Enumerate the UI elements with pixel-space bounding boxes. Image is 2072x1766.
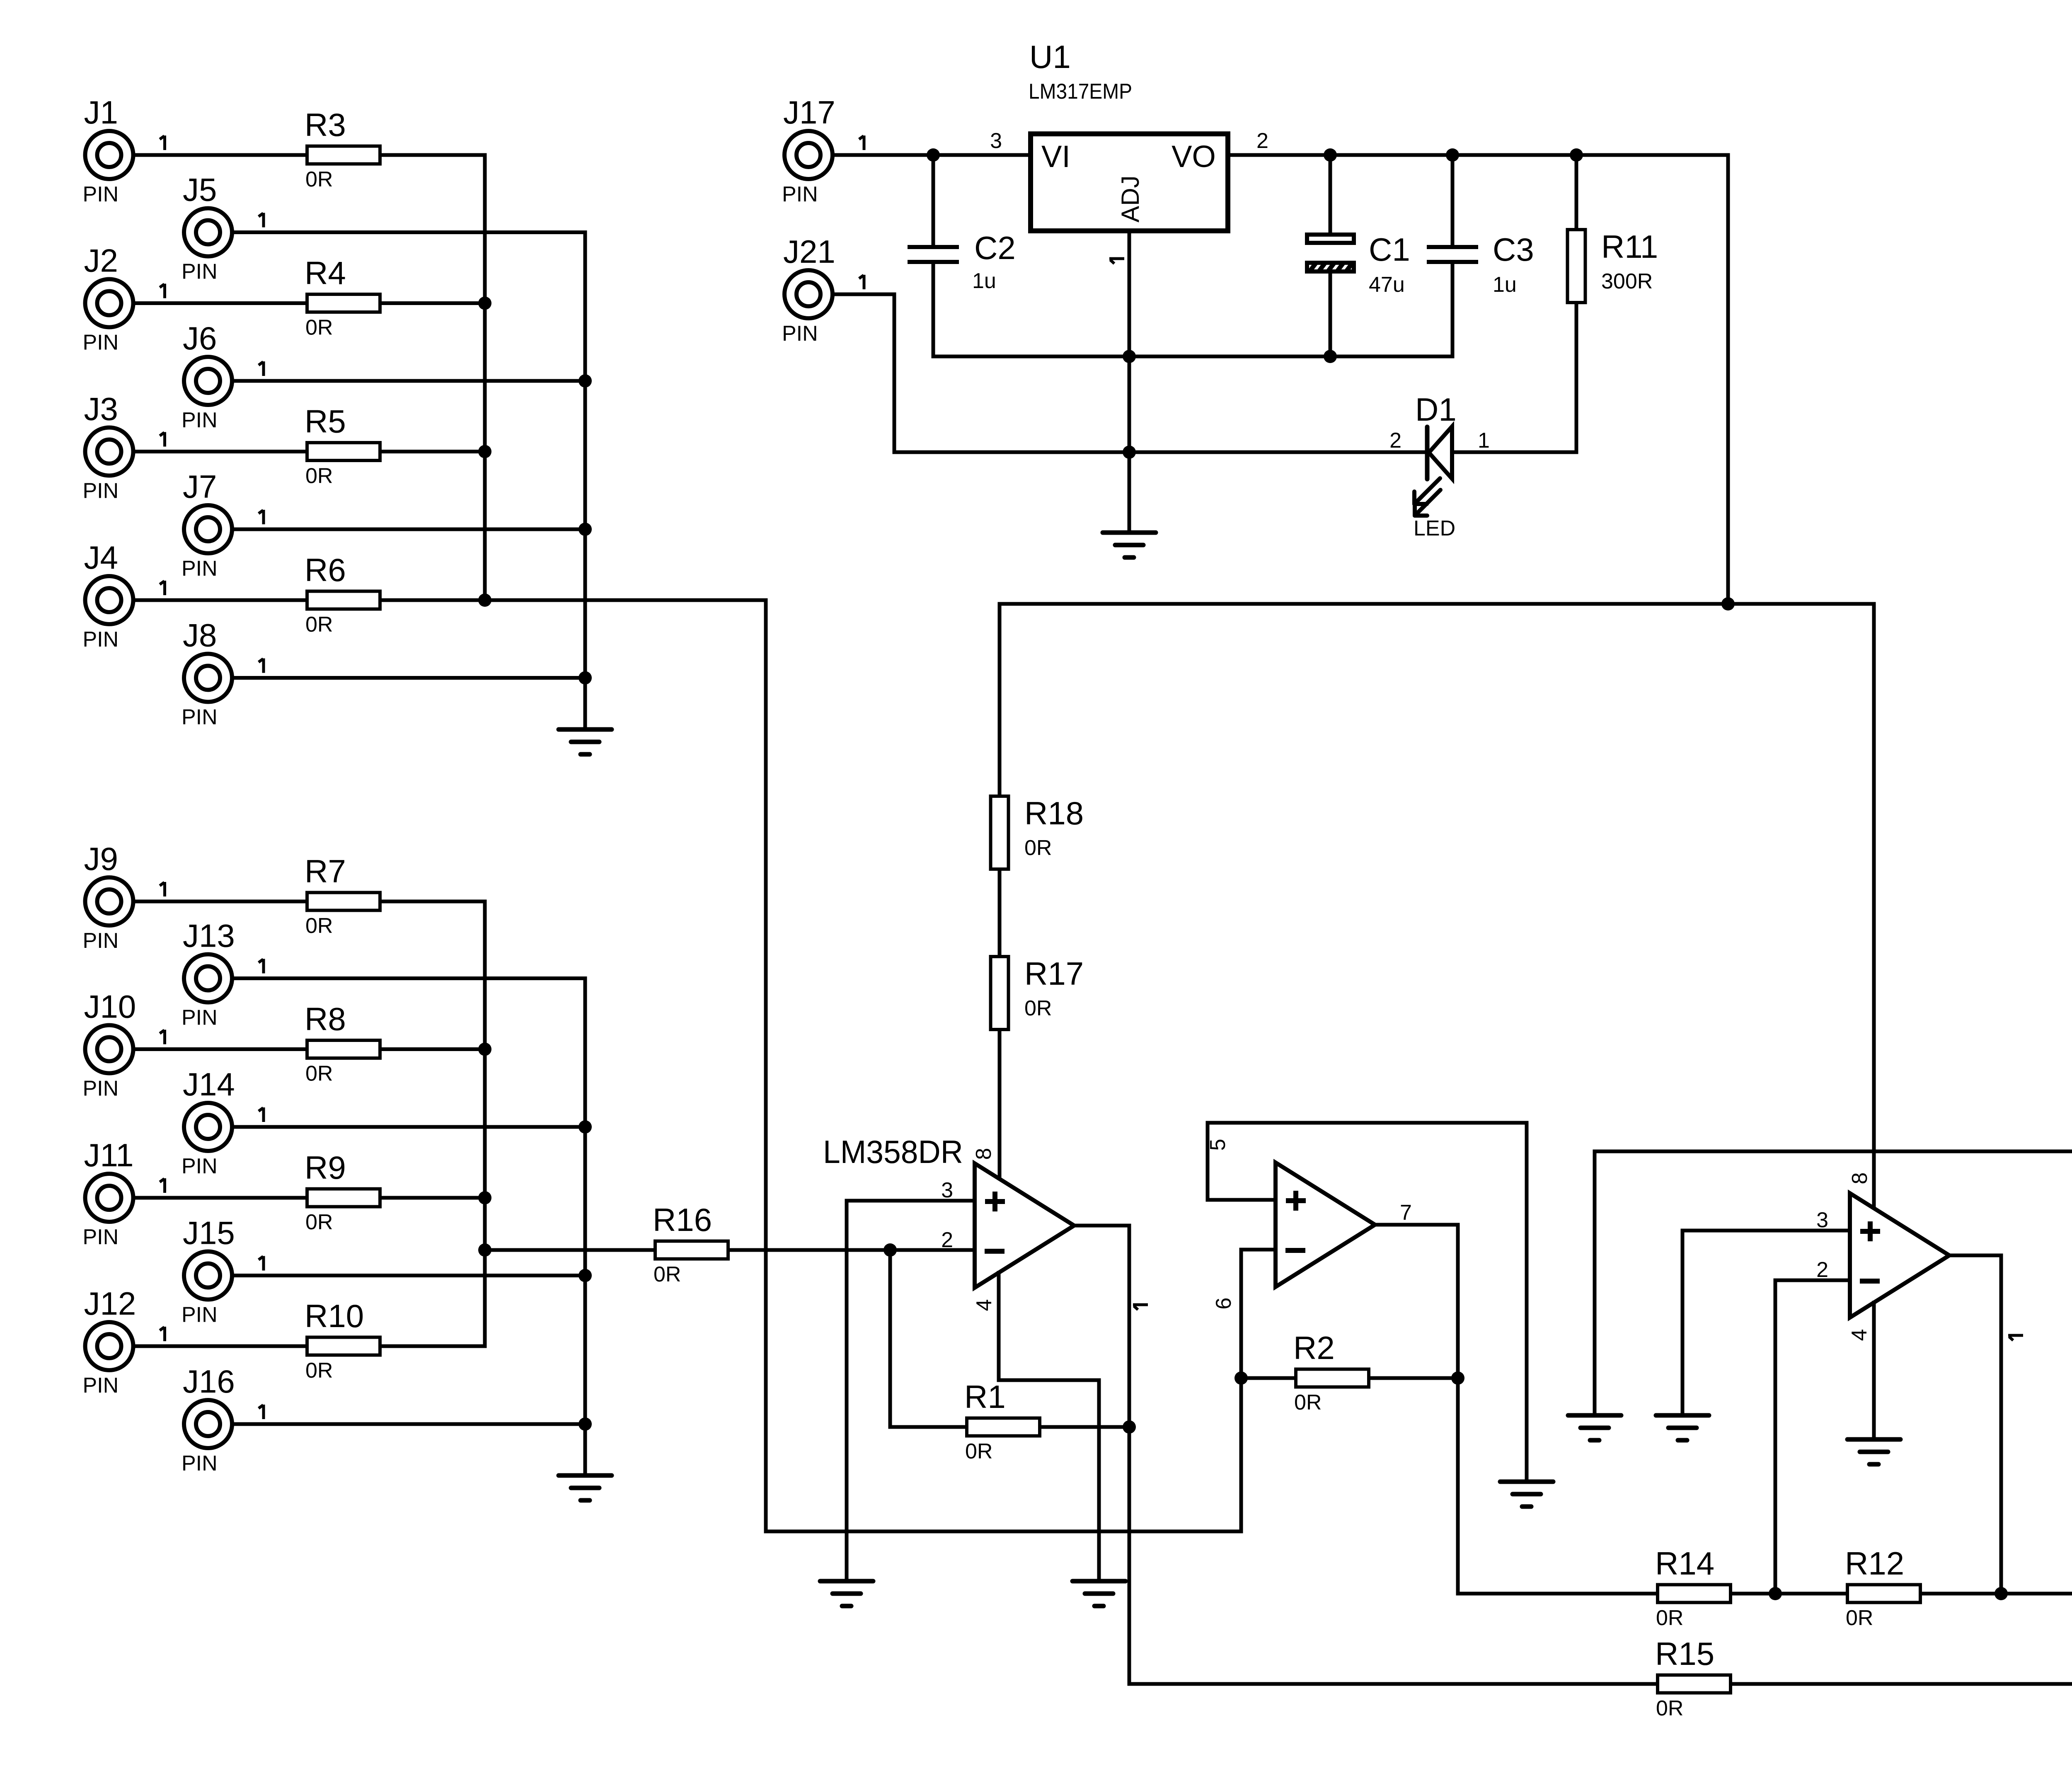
svg-text:J2: J2 xyxy=(84,242,118,279)
svg-text:PIN: PIN xyxy=(83,1374,119,1398)
svg-text:2: 2 xyxy=(1389,429,1402,453)
resistor R5 0R xyxy=(305,403,380,488)
pin number 2 U3A xyxy=(1816,1258,1828,1282)
op-amp U2B LM358DR second half xyxy=(1276,1163,1375,1287)
svg-text:0R: 0R xyxy=(1024,996,1052,1020)
connector J11 xyxy=(83,1137,165,1249)
svg-text:J9: J9 xyxy=(84,841,118,877)
regulator U1 LM317EMP xyxy=(1029,39,1228,231)
wire R14 right xyxy=(1733,1592,1846,1596)
wire J5 to ground bus xyxy=(234,230,585,234)
svg-text:1u: 1u xyxy=(972,269,996,293)
svg-text:J5: J5 xyxy=(183,172,217,208)
svg-text:0R: 0R xyxy=(305,1359,333,1383)
svg-text:0R: 0R xyxy=(965,1439,992,1463)
svg-text:0R: 0R xyxy=(1024,836,1052,860)
wire R3 right xyxy=(382,153,485,157)
junction J14 bus xyxy=(579,1120,592,1134)
svg-text:PIN: PIN xyxy=(182,1451,218,1475)
junction pin2 feedback tap xyxy=(884,1243,897,1257)
svg-text:J4: J4 xyxy=(84,539,118,576)
svg-text:0R: 0R xyxy=(1656,1606,1683,1630)
svg-text:PIN: PIN xyxy=(182,1303,218,1327)
svg-text:0R: 0R xyxy=(305,613,333,637)
junction R2 left xyxy=(1234,1371,1248,1385)
ground U3A pin3 xyxy=(1656,1415,1709,1440)
wire R11 bottom lead xyxy=(1575,305,1578,452)
svg-text:J14: J14 xyxy=(183,1066,235,1102)
connector J6 xyxy=(182,320,264,432)
pin number 4 U2A xyxy=(972,1299,996,1311)
wire bus R7-R10 xyxy=(483,901,487,1346)
svg-text:5: 5 xyxy=(1206,1139,1230,1151)
svg-text:6: 6 xyxy=(1212,1298,1236,1310)
junction R9 bus xyxy=(478,1191,491,1204)
junction R4 bus xyxy=(478,297,491,310)
resistor R8 0R xyxy=(305,1001,380,1086)
svg-text:2: 2 xyxy=(1816,1258,1828,1282)
wire D1 cathode lead xyxy=(1129,451,1427,454)
svg-text:PIN: PIN xyxy=(83,1077,119,1101)
pin number 1 U1 ADJ xyxy=(1109,259,1124,264)
resistor R1 0R xyxy=(964,1378,1040,1463)
wire U3A pin2 xyxy=(1775,1279,1850,1282)
connector J17 xyxy=(782,94,864,206)
junction J6 bus xyxy=(579,374,592,388)
svg-text:PIN: PIN xyxy=(83,1225,119,1249)
wire R9 right xyxy=(382,1196,485,1200)
svg-text:8: 8 xyxy=(972,1148,996,1160)
junction R8 bus xyxy=(478,1043,491,1056)
wire R6 net down xyxy=(485,600,1241,1531)
svg-text:7: 7 xyxy=(1400,1201,1412,1225)
junction ADJ-D1 node xyxy=(1123,446,1136,459)
wire J13 to ground bus xyxy=(234,976,585,980)
svg-text:PIN: PIN xyxy=(182,1006,218,1030)
wire R7 right xyxy=(382,900,485,904)
svg-text:PIN: PIN xyxy=(83,479,119,503)
wire R11 top lead xyxy=(1575,155,1578,228)
wire R10 right xyxy=(382,1344,485,1348)
wire R18 to R17 xyxy=(998,871,1002,955)
connector J7 xyxy=(182,468,264,581)
pin number 7 U2B xyxy=(1400,1201,1412,1225)
connector J8 xyxy=(182,617,264,729)
svg-text:PIN: PIN xyxy=(182,260,218,284)
pin number 8 op-amp U2A xyxy=(972,1148,996,1160)
pin number 4 U3A xyxy=(1847,1329,1871,1341)
svg-text:PIN: PIN xyxy=(782,182,818,206)
connector J13 xyxy=(182,918,264,1030)
resistor R12 0R xyxy=(1845,1545,1920,1630)
wire R6 right xyxy=(382,598,485,602)
svg-text:J12: J12 xyxy=(84,1285,136,1322)
wire V+ rail top xyxy=(1000,602,1874,606)
wire J12 to resistor xyxy=(136,1344,305,1348)
junction R14-R12 node xyxy=(1769,1587,1782,1600)
op-amp U2A LM358DR xyxy=(823,1134,1074,1288)
svg-text:J11: J11 xyxy=(84,1137,134,1173)
pin number 1 U3A xyxy=(2008,1335,2023,1340)
connector J10 xyxy=(83,988,165,1101)
svg-text:2: 2 xyxy=(941,1228,953,1252)
svg-text:4: 4 xyxy=(1847,1329,1871,1341)
wire R12 right xyxy=(1923,1592,2072,1596)
ground U2B pin5 xyxy=(1500,1482,1553,1507)
connector J12 xyxy=(83,1285,165,1398)
svg-text:3: 3 xyxy=(941,1178,953,1202)
wire feedback to R1 xyxy=(890,1250,965,1427)
junction C1 top xyxy=(1324,148,1337,162)
connector J14 xyxy=(182,1066,264,1178)
resistor R2 0R xyxy=(1293,1330,1369,1415)
svg-text:R14: R14 xyxy=(1655,1545,1714,1582)
svg-text:PIN: PIN xyxy=(182,1154,218,1178)
connector J2 xyxy=(83,242,165,355)
junction J15 bus xyxy=(579,1269,592,1282)
svg-text:C1: C1 xyxy=(1369,231,1410,268)
wire J16 to ground bus xyxy=(234,1422,585,1426)
wire op-amp U2A pin3 xyxy=(847,1199,975,1203)
wire R16 to pin2 xyxy=(730,1248,975,1252)
wire R2 right xyxy=(1371,1376,1458,1380)
wire output line R15 xyxy=(1129,1682,1656,1686)
pin number 5 U2B xyxy=(1206,1139,1230,1151)
svg-text:47u: 47u xyxy=(1369,273,1405,297)
pin number 2 U2A xyxy=(941,1228,953,1252)
ground U1 ADJ xyxy=(1103,533,1156,557)
wire R4 right xyxy=(382,301,485,305)
junction R2 output xyxy=(1451,1371,1464,1385)
svg-text:J3: J3 xyxy=(84,391,118,427)
svg-text:J10: J10 xyxy=(84,988,136,1025)
svg-text:3: 3 xyxy=(1816,1208,1828,1232)
diode D1 LED xyxy=(1389,391,1490,540)
svg-text:PIN: PIN xyxy=(182,557,218,581)
svg-text:R5: R5 xyxy=(305,403,346,440)
pin number 8 U3A xyxy=(1848,1172,1872,1185)
wire J1 to resistor xyxy=(136,153,305,157)
wire J7 to ground bus xyxy=(234,528,585,531)
ground U2A pin4 xyxy=(1072,1581,1126,1606)
junction C3 top xyxy=(1446,148,1459,162)
connector J4 xyxy=(83,539,165,652)
svg-text:VI: VI xyxy=(1041,139,1070,174)
svg-text:0R: 0R xyxy=(654,1262,681,1286)
svg-text:C3: C3 xyxy=(1493,231,1534,268)
pin number 3 U3A xyxy=(1816,1208,1828,1232)
capacitor C2 1u xyxy=(908,230,1016,293)
svg-text:J17: J17 xyxy=(783,94,835,131)
resistor R10 0R xyxy=(305,1298,380,1383)
svg-text:J13: J13 xyxy=(183,918,235,954)
svg-text:PIN: PIN xyxy=(182,408,218,432)
svg-text:PIN: PIN xyxy=(83,182,119,206)
svg-text:0R: 0R xyxy=(1656,1696,1683,1720)
wire J8 to ground bus xyxy=(234,676,585,680)
ground J5-J8 xyxy=(559,729,612,754)
junction C2 top xyxy=(927,148,940,162)
svg-text:J6: J6 xyxy=(183,320,217,356)
connector J9 xyxy=(83,841,165,953)
wire J17 to U1 VI xyxy=(835,153,1028,157)
wire V+ to R18 xyxy=(998,604,1002,795)
wire J4 to resistor xyxy=(136,598,305,602)
svg-text:R11: R11 xyxy=(1601,228,1658,265)
wire U2A pin4 to ground xyxy=(999,1273,1099,1581)
resistor R9 0R xyxy=(305,1149,380,1234)
svg-text:300R: 300R xyxy=(1601,269,1653,293)
wire C1 top lead xyxy=(1329,155,1332,233)
junction J8 bus xyxy=(579,671,592,685)
wire J10 to resistor xyxy=(136,1047,305,1051)
wire R1 right xyxy=(1041,1425,1129,1429)
wire R17 to opamp pin8 xyxy=(998,1032,1002,1178)
svg-text:J21: J21 xyxy=(783,233,835,270)
svg-text:VO: VO xyxy=(1172,139,1216,174)
svg-text:J16: J16 xyxy=(183,1363,235,1400)
wire U2B pin6 xyxy=(1241,1250,1276,1531)
resistor R7 0R xyxy=(305,853,380,938)
wire J14 to ground bus xyxy=(234,1125,585,1129)
capacitor C3 1u xyxy=(1427,231,1534,297)
svg-text:R17: R17 xyxy=(1024,955,1084,992)
wire U3B pin5 xyxy=(1595,1151,2072,1414)
svg-text:ADJ: ADJ xyxy=(1116,175,1144,222)
wire J3 to resistor xyxy=(136,450,305,453)
svg-text:R1: R1 xyxy=(964,1378,1006,1415)
pin number 3 U2A xyxy=(941,1178,953,1202)
svg-text:LED: LED xyxy=(1414,516,1455,540)
wire R15 right xyxy=(1733,1682,2072,1686)
wire R2 left xyxy=(1241,1376,1294,1380)
svg-text:J8: J8 xyxy=(183,617,217,654)
pin number 2 U1 VO xyxy=(1256,129,1268,153)
svg-text:PIN: PIN xyxy=(83,627,119,652)
resistor R6 0R xyxy=(305,552,380,637)
wire pin3 to ground U3A xyxy=(1681,1231,1685,1414)
svg-text:1: 1 xyxy=(1478,429,1490,453)
wire U1 VO to rail xyxy=(1230,153,1728,157)
wire U3A pin2 feedback xyxy=(1774,1280,1777,1594)
wire J6 to ground bus xyxy=(234,379,585,383)
wire pin3 to ground xyxy=(845,1201,849,1581)
junction J16 bus xyxy=(579,1417,592,1431)
svg-text:D1: D1 xyxy=(1415,391,1457,428)
pin number 6 U2B xyxy=(1212,1298,1236,1310)
svg-text:4: 4 xyxy=(972,1299,996,1311)
svg-text:R6: R6 xyxy=(305,552,346,588)
wire U2A output xyxy=(1074,1226,1129,1684)
op-amp U3A LM358DR-2 xyxy=(1850,1193,1949,1318)
connector J15 xyxy=(182,1215,264,1327)
svg-text:R10: R10 xyxy=(305,1298,364,1334)
svg-text:0R: 0R xyxy=(305,167,333,191)
svg-text:2: 2 xyxy=(1256,129,1268,153)
junction R1 output xyxy=(1123,1420,1136,1434)
wire C2 bottom lead xyxy=(932,264,935,356)
junction R12 output node xyxy=(1995,1587,2008,1600)
junction R11 top xyxy=(1570,148,1583,162)
svg-text:1u: 1u xyxy=(1493,273,1517,297)
svg-text:PIN: PIN xyxy=(182,705,218,729)
capacitor C1 47u xyxy=(1306,231,1410,297)
svg-text:0R: 0R xyxy=(305,1210,333,1234)
resistor R18 0R xyxy=(991,795,1084,869)
wire C3 top lead xyxy=(1451,155,1455,245)
ground U2A pin3 xyxy=(820,1581,873,1606)
wire U3A pin4 to ground xyxy=(1872,1303,1876,1438)
junction R6 bus xyxy=(478,594,491,607)
wire U2B pin5 bridge xyxy=(1208,1123,1527,1480)
wire J21 to ADJ node xyxy=(835,294,1129,452)
wire J2 to resistor xyxy=(136,301,305,305)
connector J3 xyxy=(83,391,165,503)
wire C1 bottom lead xyxy=(1329,274,1332,356)
svg-text:PIN: PIN xyxy=(782,322,818,346)
resistor R11 300R xyxy=(1568,228,1658,303)
resistor R16 0R xyxy=(653,1202,728,1286)
svg-text:R4: R4 xyxy=(305,255,346,291)
svg-text:LM358DR: LM358DR xyxy=(823,1134,963,1170)
junction VO rail tee xyxy=(1721,597,1735,610)
wire D1 anode lead xyxy=(1452,451,1576,454)
svg-text:LM317EMP: LM317EMP xyxy=(1029,80,1132,104)
resistor R17 0R xyxy=(991,955,1084,1030)
wire C3 bottom lead xyxy=(1451,264,1455,356)
pin number 3 U1 VI xyxy=(990,129,1002,153)
svg-text:0R: 0R xyxy=(1294,1391,1322,1415)
svg-text:0R: 0R xyxy=(305,1062,333,1086)
svg-text:PIN: PIN xyxy=(83,331,119,355)
svg-text:3: 3 xyxy=(990,129,1002,153)
LED arrows xyxy=(1414,478,1440,516)
wire ground bus J13-J16 xyxy=(583,979,587,1476)
wire U2B output xyxy=(1375,1225,1656,1594)
svg-text:U1: U1 xyxy=(1029,39,1071,75)
junction J7 bus xyxy=(579,523,592,536)
wire U3A pin3 xyxy=(1682,1229,1850,1233)
connector J1 xyxy=(83,94,165,206)
ground U3A pin4 xyxy=(1847,1439,1900,1464)
svg-text:R9: R9 xyxy=(305,1149,346,1186)
wire J15 to ground bus xyxy=(234,1274,585,1277)
resistor R14 0R xyxy=(1655,1545,1731,1630)
wire R8 right xyxy=(382,1047,485,1051)
junction ADJ rail xyxy=(1123,350,1136,363)
junction C1 bottom xyxy=(1324,350,1337,363)
svg-text:PIN: PIN xyxy=(83,929,119,953)
svg-text:8: 8 xyxy=(1848,1172,1872,1185)
svg-text:R16: R16 xyxy=(653,1202,712,1238)
wire ADJ bottom rail xyxy=(933,355,1452,359)
wire J11 to resistor xyxy=(136,1196,305,1200)
resistor R15 0R xyxy=(1655,1635,1731,1720)
wire J9 to resistor xyxy=(136,900,305,904)
svg-text:0R: 0R xyxy=(305,914,333,938)
connector J16 xyxy=(182,1363,264,1475)
pin number 1 U2A xyxy=(1133,1305,1148,1310)
wire R5 right xyxy=(382,450,485,453)
svg-text:J1: J1 xyxy=(84,94,118,131)
connector J5 xyxy=(182,172,264,284)
svg-text:J7: J7 xyxy=(183,468,217,505)
svg-text:R12: R12 xyxy=(1845,1545,1904,1582)
svg-text:J15: J15 xyxy=(183,1215,235,1251)
svg-text:R15: R15 xyxy=(1655,1635,1714,1672)
junction R16 tap xyxy=(478,1243,491,1257)
junction R5 bus xyxy=(478,445,491,458)
wire R16 left xyxy=(485,1248,654,1252)
svg-text:R7: R7 xyxy=(305,853,346,889)
wire bus R3-R6 xyxy=(483,155,487,600)
wire U3A output xyxy=(1949,1255,2001,1594)
wire C2 top lead xyxy=(932,155,935,245)
svg-text:0R: 0R xyxy=(305,464,333,488)
connector J21 xyxy=(782,233,864,346)
svg-text:R3: R3 xyxy=(305,107,346,143)
svg-text:R2: R2 xyxy=(1293,1330,1335,1366)
ground J13-J16 xyxy=(559,1475,612,1500)
wire VO rail down xyxy=(1726,155,1730,604)
svg-text:0R: 0R xyxy=(305,316,333,340)
wire U1 ADJ lead xyxy=(1128,233,1131,531)
resistor R4 0R xyxy=(305,255,380,340)
svg-text:C2: C2 xyxy=(974,230,1016,266)
ground U3B pin5 xyxy=(1568,1415,1621,1440)
svg-text:R8: R8 xyxy=(305,1001,346,1037)
wire U3A pin8 xyxy=(1872,604,1876,1208)
svg-text:0R: 0R xyxy=(1846,1606,1873,1630)
svg-text:R18: R18 xyxy=(1024,795,1084,831)
resistor R3 0R xyxy=(305,107,380,191)
wire ground bus J5-J8 xyxy=(583,233,587,730)
